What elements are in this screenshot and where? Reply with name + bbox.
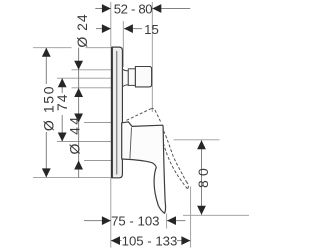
extension line d24 bottom [72,87,122,89]
extension line d24 top [72,69,122,71]
plate shading band [113,49,121,177]
arrow d44 bottom (outside below) [74,161,83,170]
escutcheon plate [111,47,122,178]
dim line d74 [61,78,63,93]
arrow d44 top (outside above) [74,114,83,123]
dim line 75-103 right tail [167,220,186,222]
extension line d44 bottom [84,160,121,162]
stem cap [135,67,151,87]
dim line 15 right tail [124,28,142,30]
arrow 15 right [124,24,133,33]
arrow d150 bottom [42,168,51,177]
extension line d150 top [33,47,72,49]
svg-text:Ø 24: Ø 24 [74,13,90,47]
extension line dashed tip [190,187,192,248]
svg-text:15: 15 [144,22,159,37]
handle inner contour [130,127,132,158]
plate left edge thick [111,47,113,177]
dim line d150 [45,48,47,84]
svg-text:80: 80 [195,164,211,188]
handle dashed apex arc [151,108,155,110]
extension line d44 top [84,122,121,124]
arrow 75-103 right [167,216,176,225]
extension line wall V1 top [110,2,112,47]
extension line d150 bottom [33,176,112,178]
arrow d150 top [42,48,51,57]
extension line handle tip [166,214,168,229]
dim line 15 left tail [96,28,111,30]
circuit-free technical dimension drawing of concealed bath mixer [0,0,250,250]
plate inner contour [116,51,118,175]
arrow 80 bottom [197,206,206,215]
dim line 80 vertical [201,140,203,215]
extension line 80 top [174,139,220,141]
handle solid [122,122,166,213]
extension line d74 top [57,77,118,79]
dim line 105-133 [111,240,122,242]
svg-text:52 - 80: 52 - 80 [114,1,153,16]
handle dashed position edge1 [127,109,151,121]
dim line d24-d44 shared [78,48,80,179]
dim line 52-80 left tail [95,8,111,10]
dim line 75-103 left tail [84,220,111,222]
arrow 52-80 left [102,4,111,13]
arrow 105-133 left [111,236,120,245]
arrow 105-133 right [181,236,190,245]
handle dashed edge2 [155,110,186,182]
svg-text:105 - 133: 105 - 133 [122,234,178,249]
handle dashed tip arc [186,182,188,189]
extension line V2 cap front [151,2,153,112]
arrow 15 left [102,24,111,33]
extension line V3 plate front [122,21,124,67]
svg-text:74: 74 [54,94,70,112]
stem neck [123,69,129,86]
arrow 52-80 right [152,4,161,13]
svg-text:Ø 44: Ø 44 [67,115,83,155]
arrow 80 top [197,140,206,149]
extension line wall V1 bottom [110,178,112,248]
arrow d24 top (outside above) [74,61,83,70]
stem ring [128,69,135,86]
arrow d24 bottom (outside below) [74,88,83,97]
arrows [42,4,206,245]
arrow d74 bottom [58,133,67,142]
extension line d74 bottom [57,141,118,143]
svg-text:75 - 103: 75 - 103 [111,214,159,229]
extension line 80 bottom [183,214,249,216]
dim line 52-80 right tail [152,8,190,10]
arrow d74 top [58,78,67,87]
arrow 75-103 left [102,216,111,225]
handle dashed edge3 [163,144,187,189]
